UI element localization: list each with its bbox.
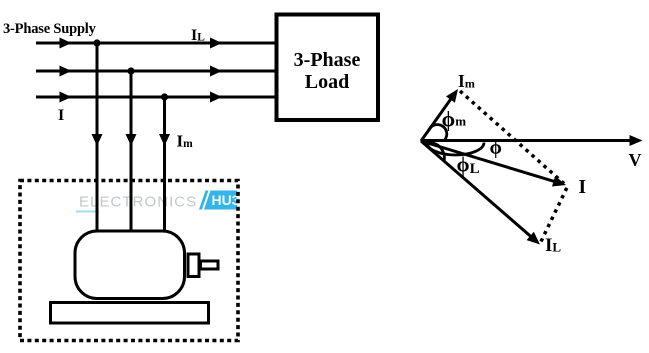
phasor vector I (421, 141, 558, 183)
motor base (51, 303, 209, 324)
phasor axis V (421, 139, 631, 142)
arrow tap 3 down (159, 134, 170, 146)
arrow phase line 1 left (60, 38, 72, 49)
arrow IL (527, 232, 540, 245)
node junction 2 (127, 67, 134, 74)
arrow tap 2 down (126, 134, 137, 146)
wire phase line 1 (36, 42, 276, 45)
arrow phase line 2 left (60, 66, 72, 77)
motor shaft step 1 (188, 254, 199, 277)
phasor vector Im (421, 97, 452, 141)
wire tap 1 (96, 43, 99, 231)
arrow phase line 3 left (60, 92, 72, 103)
phasor vector IL (421, 141, 533, 238)
arrow phase line 1 right (210, 38, 222, 49)
arrow V (630, 135, 643, 146)
wire phase line 2 (36, 70, 276, 73)
svg-text:3-Phase Supply: 3-Phase Supply (3, 21, 97, 37)
svg-text:V: V (629, 150, 642, 170)
dotted construction line Im tip to I tip (460, 91, 564, 184)
angle arc phi-L (426, 142, 445, 161)
wire tap 2 (130, 71, 133, 231)
node junction 3 (161, 93, 168, 100)
watermark hub box (204, 191, 237, 210)
dotted construction line IL tip to I tip (541, 188, 567, 242)
arrow Im (446, 89, 458, 103)
arrow phase line 2 right (210, 66, 222, 77)
wire tap 3 (163, 97, 166, 231)
angle arc phi-m (429, 125, 447, 140)
node junction 1 (93, 39, 100, 46)
svg-text:I: I (579, 177, 587, 198)
svg-text:HU3: HU3 (212, 192, 240, 208)
svg-text:ϕ: ϕ (490, 137, 502, 159)
motor shaft step 2 (201, 261, 219, 269)
angle arc phi (427, 143, 484, 156)
svg-text:3-Phase: 3-Phase (294, 49, 361, 71)
synchronous condenser dashed enclosure (20, 181, 238, 341)
arrow tap 1 down (92, 134, 103, 146)
synchronous motor body (75, 231, 185, 299)
wire phase line 3 (36, 96, 276, 99)
arrow phase line 3 right (210, 92, 222, 103)
arrow I (552, 176, 566, 187)
watermark underline (76, 211, 99, 213)
3-phase load box (277, 15, 379, 121)
svg-text:I: I (58, 107, 64, 124)
svg-text:Load: Load (305, 71, 349, 93)
watermark hub slash (199, 191, 209, 210)
